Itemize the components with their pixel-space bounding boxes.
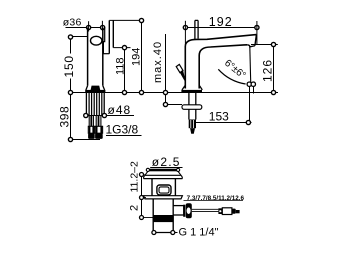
svg-text:ø2.5: ø2.5 (152, 155, 181, 169)
svg-text:118: 118 (115, 57, 127, 75)
svg-text:153: 153 (209, 110, 229, 124)
svg-text:ø36: ø36 (63, 17, 82, 29)
svg-text:6°±6°: 6°±6° (222, 58, 247, 82)
svg-text:max.40: max.40 (152, 41, 164, 83)
svg-text:7.3/7.7/8.5/11.2/12.6: 7.3/7.7/8.5/11.2/12.6 (187, 195, 245, 202)
svg-text:11.2–2: 11.2–2 (129, 161, 141, 192)
svg-text:ø48: ø48 (108, 103, 132, 117)
svg-text:192: 192 (209, 15, 233, 29)
svg-text:398: 398 (58, 106, 72, 128)
svg-text:1G3/8: 1G3/8 (106, 123, 139, 137)
svg-text:126: 126 (261, 59, 275, 82)
svg-text:2: 2 (129, 205, 141, 211)
svg-text:194: 194 (131, 48, 143, 66)
svg-text:G 1 1/4": G 1 1/4" (179, 227, 219, 239)
svg-text:150: 150 (62, 55, 76, 77)
